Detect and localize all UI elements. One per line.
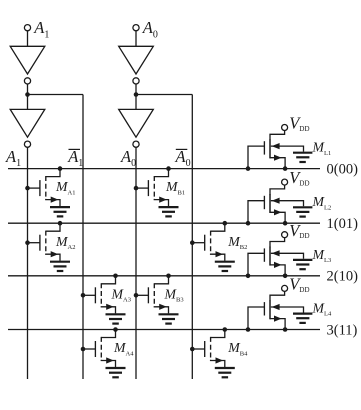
word line 1 bbox=[8, 222, 320, 224]
transistor M_B3 channel bbox=[153, 283, 155, 307]
transistor M_L3 source node bbox=[283, 274, 288, 279]
label A0 column bbox=[120, 147, 136, 169]
svg-text:0(00): 0(00) bbox=[327, 162, 359, 178]
label word line 3 bbox=[327, 322, 358, 338]
label M_B4 bbox=[227, 340, 248, 357]
transistor M_A4 source arrow bbox=[106, 357, 114, 363]
transistor M_A4 source wire bbox=[101, 360, 115, 367]
transistor M_L4 gate bar bbox=[263, 302, 265, 315]
transistor M_A1 channel bbox=[45, 176, 47, 200]
VDD terminal (M_L4) bbox=[282, 275, 310, 294]
transistor M_A1 drain node bbox=[58, 166, 63, 171]
wire to complement column A1 bbox=[28, 94, 84, 96]
transistor M_B3 drain node bbox=[166, 274, 171, 279]
input terminal A0 bbox=[133, 18, 158, 40]
label M_B3 bbox=[164, 286, 184, 303]
transistor M_L2 channel bbox=[269, 194, 271, 213]
transistor M_B4 drain node bbox=[223, 327, 228, 332]
transistor M_A2 gate wire bbox=[28, 242, 40, 244]
ground M_A4 bbox=[106, 368, 126, 377]
transistor M_L4 bulk arrow bbox=[272, 304, 280, 310]
transistor M_A1 source wire bbox=[46, 199, 60, 206]
label A1 column bbox=[5, 147, 21, 169]
transistor M_L3 bulk arrow bbox=[272, 250, 280, 256]
transistor M_B2 drain node bbox=[223, 221, 228, 226]
label M_B2 bbox=[227, 234, 247, 251]
transistor M_L2 gate node bbox=[246, 221, 251, 226]
transistor M_B2 gate bar bbox=[204, 235, 206, 251]
transistor M_L1 source node bbox=[283, 166, 288, 171]
transistor M_B3 gate node bbox=[134, 293, 139, 298]
label word line 2 bbox=[327, 269, 359, 285]
label M_A2 bbox=[55, 234, 75, 251]
wire column complement A0 bbox=[191, 95, 193, 380]
transistor M_L1 source wire bbox=[270, 158, 285, 169]
transistor M_A3 source wire bbox=[101, 306, 115, 313]
transistor M_L4 drain wire bbox=[270, 291, 285, 301]
transistor M_L2 source wire bbox=[270, 212, 285, 223]
VDD terminal (M_L2) bbox=[282, 168, 310, 187]
transistor M_B2 gate node bbox=[190, 240, 195, 245]
svg-text:2(10): 2(10) bbox=[327, 269, 359, 285]
VDD terminal (M_L3) bbox=[282, 221, 310, 240]
wire to complement column A0 bbox=[136, 94, 192, 96]
wire inverter output node A1 bbox=[27, 84, 29, 109]
transistor M_B1 gate bar bbox=[147, 180, 149, 196]
transistor M_L3 gate bar bbox=[263, 248, 265, 261]
transistor M_L1 bulk arrow bbox=[272, 143, 280, 149]
ground M_A3 bbox=[106, 314, 126, 323]
transistor M_B2 source wire bbox=[211, 254, 225, 261]
transistor M_B4 gate node bbox=[190, 347, 195, 352]
wire input A0 to inverter bbox=[135, 31, 137, 47]
transistor M_A4 drain wire bbox=[101, 330, 115, 338]
word line 3 bbox=[8, 329, 320, 331]
transistor M_L3 source wire bbox=[270, 265, 285, 276]
ground M_B2 bbox=[215, 262, 235, 271]
transistor M_B1 gate wire bbox=[136, 187, 148, 189]
transistor M_B1 source arrow bbox=[159, 197, 167, 203]
input terminal A1 bbox=[24, 18, 49, 40]
transistor M_A1 gate node bbox=[25, 186, 30, 191]
transistor M_B2 channel bbox=[210, 231, 212, 255]
ground (M_L3) bbox=[293, 260, 312, 269]
inverter UA1 second stage bbox=[10, 109, 45, 147]
transistor M_A3 source arrow bbox=[106, 304, 114, 310]
transistor M_L1 source arrow bbox=[274, 155, 282, 161]
transistor M_A4 gate wire bbox=[83, 348, 95, 350]
transistor M_L3 gate node bbox=[246, 274, 251, 279]
transistor M_A1 gate bar bbox=[39, 180, 41, 196]
transistor M_A3 drain node bbox=[113, 274, 118, 279]
transistor M_B4 gate wire bbox=[192, 348, 204, 350]
node complement tap A0 bbox=[134, 92, 139, 97]
transistor M_A3 channel bbox=[100, 283, 102, 307]
transistor M_B1 channel bbox=[153, 176, 155, 200]
transistor M_A1 source arrow bbox=[51, 197, 59, 203]
transistor M_L2 bulk arrow bbox=[272, 198, 280, 204]
word line 0 bbox=[8, 168, 320, 170]
transistor M_A3 gate node bbox=[81, 293, 86, 298]
transistor M_B3 gate wire bbox=[136, 294, 148, 296]
transistor M_A4 channel bbox=[100, 337, 102, 361]
label M_A3 bbox=[111, 286, 131, 303]
transistor M_B1 drain node bbox=[166, 166, 171, 171]
transistor M_B1 gate node bbox=[134, 186, 139, 191]
transistor M_L4 gate wire bbox=[248, 307, 264, 330]
transistor M_B3 source arrow bbox=[159, 304, 167, 310]
label M_L2 bbox=[312, 194, 332, 211]
transistor M_B4 gate bar bbox=[204, 341, 206, 357]
wire column A0 buffered bbox=[135, 147, 137, 379]
transistor M_L3 channel bbox=[269, 247, 271, 266]
transistor M_A4 gate node bbox=[81, 347, 86, 352]
transistor M_L2 gate wire bbox=[248, 201, 264, 224]
transistor M_A2 source wire bbox=[46, 254, 60, 261]
transistor M_L4 channel bbox=[269, 300, 271, 319]
transistor M_A2 drain wire bbox=[46, 223, 60, 231]
transistor M_L1 bulk wire bbox=[271, 146, 304, 152]
transistor M_A1 drain wire bbox=[46, 169, 60, 177]
transistor M_L2 drain wire bbox=[270, 185, 285, 195]
svg-text:1(01): 1(01) bbox=[327, 216, 359, 232]
VDD terminal (M_L1) bbox=[282, 114, 310, 133]
transistor M_L2 gate bar bbox=[263, 196, 265, 209]
ground (M_L2) bbox=[293, 207, 312, 216]
ground M_B4 bbox=[215, 368, 235, 377]
svg-text:3(11): 3(11) bbox=[327, 322, 358, 338]
inverter UA0 second stage bbox=[119, 109, 154, 147]
transistor M_A2 source arrow bbox=[51, 251, 59, 257]
transistor M_A3 gate wire bbox=[83, 294, 95, 296]
transistor M_L3 bulk wire bbox=[271, 253, 304, 258]
transistor M_B2 drain wire bbox=[211, 223, 225, 231]
ground M_B3 bbox=[159, 314, 179, 323]
transistor M_A2 channel bbox=[45, 231, 47, 255]
transistor M_B1 source wire bbox=[154, 199, 168, 206]
label word line 0 bbox=[327, 162, 359, 178]
transistor M_B3 source wire bbox=[154, 306, 168, 313]
label A0bar column bbox=[175, 147, 191, 169]
transistor M_L1 gate wire bbox=[248, 146, 264, 169]
transistor M_L3 drain wire bbox=[270, 238, 285, 248]
transistor M_L2 bulk wire bbox=[271, 201, 304, 207]
ground M_A1 bbox=[50, 207, 70, 216]
node complement tap A1 bbox=[25, 92, 30, 97]
transistor M_L1 gate node bbox=[246, 166, 251, 171]
transistor M_B4 drain wire bbox=[211, 330, 225, 338]
label A1bar column bbox=[67, 147, 83, 169]
transistor M_L4 source wire bbox=[270, 319, 285, 330]
transistor M_B4 source arrow bbox=[216, 357, 224, 363]
transistor M_L4 bulk wire bbox=[271, 307, 304, 313]
wire input A1 to inverter bbox=[27, 31, 29, 47]
wire inverter output node A0 bbox=[135, 84, 137, 109]
transistor M_B1 drain wire bbox=[154, 169, 168, 177]
wire column A1 buffered bbox=[27, 147, 29, 379]
transistor M_L2 source node bbox=[283, 221, 288, 226]
transistor M_A3 gate bar bbox=[94, 287, 96, 303]
label M_A1 bbox=[55, 179, 75, 196]
wire column complement A1 bbox=[82, 95, 84, 380]
transistor M_L1 drain wire bbox=[270, 130, 285, 140]
transistor M_B3 gate bar bbox=[147, 287, 149, 303]
transistor M_L4 gate node bbox=[246, 327, 251, 332]
transistor M_L2 source arrow bbox=[274, 209, 282, 215]
ground (M_L1) bbox=[293, 153, 312, 162]
transistor M_L4 source arrow bbox=[274, 316, 282, 322]
transistor M_B4 channel bbox=[210, 337, 212, 361]
transistor M_A4 gate bar bbox=[94, 341, 96, 357]
transistor M_A2 gate node bbox=[25, 240, 30, 245]
label M_L4 bbox=[312, 301, 332, 318]
transistor M_A3 drain wire bbox=[101, 276, 115, 284]
word line 2 bbox=[8, 275, 320, 277]
transistor M_L1 channel bbox=[269, 139, 271, 158]
ground M_B1 bbox=[159, 207, 179, 216]
transistor M_B2 source arrow bbox=[216, 251, 224, 257]
label M_L1 bbox=[312, 140, 332, 157]
transistor M_B4 source wire bbox=[211, 360, 225, 367]
transistor M_B2 gate wire bbox=[192, 242, 204, 244]
inverter UA0 first stage bbox=[119, 46, 154, 84]
ground M_A2 bbox=[50, 262, 70, 271]
transistor M_B3 drain wire bbox=[154, 276, 168, 284]
ground (M_L4) bbox=[293, 314, 312, 323]
label M_A4 bbox=[113, 340, 134, 357]
transistor M_A4 drain node bbox=[113, 327, 118, 332]
transistor M_A2 drain node bbox=[58, 221, 63, 226]
transistor M_A2 gate bar bbox=[39, 235, 41, 251]
inverter UA1 first stage bbox=[10, 46, 45, 84]
label word line 1 bbox=[327, 216, 359, 232]
transistor M_L3 gate wire bbox=[248, 253, 264, 275]
transistor M_A1 gate wire bbox=[28, 187, 40, 189]
transistor M_L4 source node bbox=[283, 327, 288, 332]
label M_L3 bbox=[312, 247, 332, 264]
transistor M_L3 source arrow bbox=[274, 262, 282, 268]
label M_B1 bbox=[165, 179, 185, 196]
transistor M_L1 gate bar bbox=[263, 141, 265, 154]
